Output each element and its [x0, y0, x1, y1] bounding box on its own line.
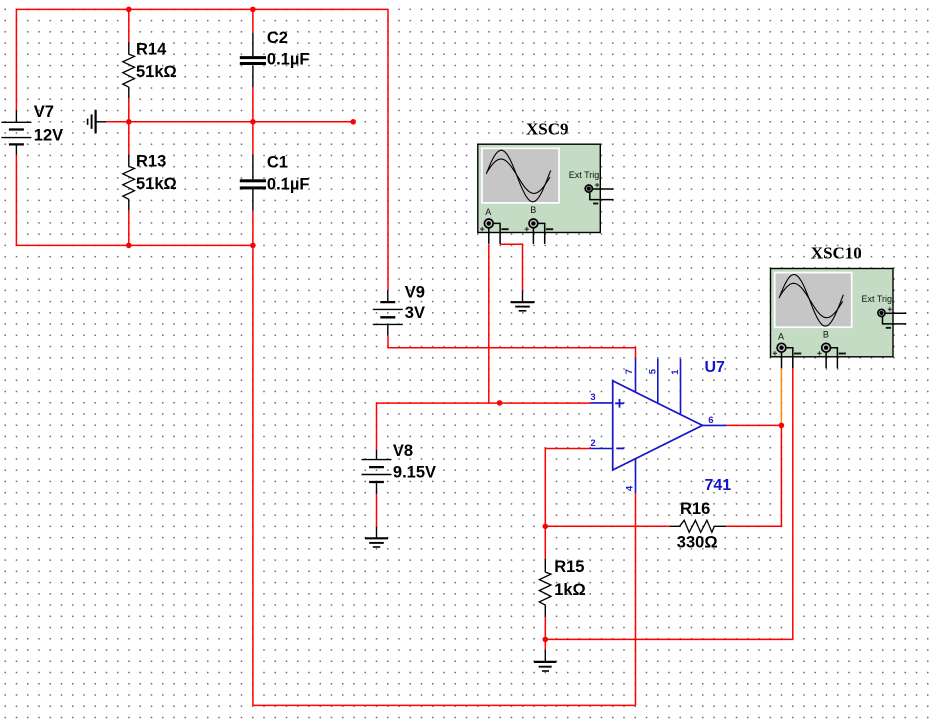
wire R13 top: [128, 122, 130, 155]
pin 1 offset null lead: [680, 359, 682, 414]
wire top rail: [16, 8, 388, 10]
svg-text:V8: V8: [393, 442, 413, 460]
junction bottom R13: [126, 243, 132, 249]
XSC10 channel B minus mark: [839, 353, 846, 355]
XSC10 screen: [775, 273, 852, 328]
resistor R14: [123, 40, 177, 98]
svg-text:9.15V: 9.15V: [393, 464, 436, 482]
wire V8 top: [376, 403, 378, 450]
wire output pin6: [726, 424, 782, 426]
wire V7 bottom to rail: [15, 155, 17, 246]
XSC10 trace B: [780, 283, 843, 317]
svg-text:5: 5: [647, 368, 658, 374]
wire bottom-left rail: [16, 244, 253, 246]
pin 5 offset null lead: [657, 359, 659, 403]
XSC9 channel A plus mark: [480, 227, 484, 231]
svg-text:XSC10: XSC10: [811, 244, 862, 263]
junction output node: [779, 423, 785, 429]
wire R16 left: [545, 525, 670, 527]
XSC10 channel B plus mark: [817, 351, 821, 355]
XSC9 channel B connector: [529, 219, 538, 228]
svg-text:3: 3: [590, 392, 595, 403]
svg-text:C1: C1: [267, 153, 288, 171]
junction top R14: [126, 7, 132, 13]
resistor R16: [670, 500, 726, 552]
XSC10 Ext Trig stub wires: [883, 313, 907, 324]
capacitor C1: [240, 153, 310, 210]
wire ground rail to XSC10 A minus: [545, 368, 793, 639]
XSC9 Ext Trig plus mark: [595, 183, 599, 187]
XSC9 channel A plus stub: [488, 228, 490, 244]
svg-text:12V: 12V: [34, 127, 63, 145]
junction mid C2: [250, 119, 256, 125]
wire long left drop: [252, 245, 254, 705]
XSC10 Ext Trig minus mark: [886, 327, 891, 329]
XSC9 body: [478, 144, 601, 232]
op-amp triangle body: [613, 381, 703, 470]
XSC9 channel B plus stub: [532, 228, 534, 244]
resistor R15: [539, 558, 585, 617]
wire middle rail from ground: [106, 121, 353, 123]
ground XSC9: [511, 291, 535, 311]
svg-text:Ext Trig: Ext Trig: [862, 294, 893, 304]
oscilloscope XSC10: [771, 244, 907, 369]
svg-text:A: A: [485, 207, 491, 217]
XSC10 Ext Trig connector: [878, 309, 885, 316]
junction top C2: [250, 7, 256, 13]
wire V9 to pin7: [388, 335, 636, 358]
XSC10 channel B plus stub: [825, 352, 827, 368]
XSC9 Ext Trig stub wires: [590, 189, 614, 200]
wire R15 to ground: [544, 639, 546, 649]
capacitor C2: [240, 29, 310, 87]
XSC9 channel A connector: [484, 219, 493, 228]
XSC9 channel B minus mark: [546, 228, 553, 230]
plus mark non-inverting: [615, 399, 624, 408]
svg-text:V9: V9: [405, 284, 425, 302]
pin 4 negative supply lead: [635, 458, 637, 493]
wire XSC9 A minus to ground: [500, 244, 522, 290]
XSC9 trace B: [487, 159, 550, 193]
op-amp U7: [590, 358, 731, 494]
svg-text:C2: C2: [267, 29, 288, 47]
wire XSC9 A plus drop: [488, 244, 490, 403]
svg-text:R13: R13: [136, 152, 166, 170]
XSC10 channel B minus stub: [826, 348, 837, 369]
junction R16 R15: [543, 524, 549, 530]
svg-text:4: 4: [624, 485, 635, 491]
svg-text:R16: R16: [680, 500, 710, 518]
wire R16 right up to output: [726, 425, 782, 526]
wire R15 bottom: [544, 617, 546, 640]
svg-text:1kΩ: 1kΩ: [554, 581, 586, 599]
junction pin3 node: [497, 400, 503, 406]
wire pin3 rail: [377, 402, 591, 404]
svg-text:330Ω: 330Ω: [677, 534, 718, 552]
svg-text:A: A: [778, 332, 784, 342]
wire left drop V7 top: [15, 9, 17, 111]
battery V9: [373, 284, 425, 335]
wire V8 bottom: [376, 494, 378, 527]
junction R15 ground: [543, 637, 549, 643]
XSC10 Ext Trig plus mark: [888, 307, 892, 311]
svg-text:0.1µF: 0.1µF: [267, 175, 310, 193]
svg-text:3V: 3V: [405, 304, 425, 322]
minus mark inverting: [616, 447, 624, 449]
oscilloscope XSC9: [478, 120, 614, 244]
svg-text:B: B: [530, 205, 536, 215]
wire C2 bottom: [252, 87, 254, 122]
svg-text:Ext Trig: Ext Trig: [569, 170, 600, 180]
XSC9 channel A minus mark: [501, 228, 508, 230]
wire C1 top: [252, 122, 254, 155]
pin 7 positive supply lead: [635, 358, 637, 392]
svg-text:741: 741: [705, 477, 732, 494]
wire pin2 feedback: [545, 449, 590, 527]
svg-text:51kΩ: 51kΩ: [136, 63, 177, 81]
XSC10 channel A connector: [777, 343, 786, 352]
svg-text:2: 2: [590, 438, 595, 449]
pin 6 output lead: [702, 424, 726, 426]
svg-text:U7: U7: [705, 359, 726, 376]
junction mid R14: [126, 119, 132, 125]
wire R13 bottom: [128, 210, 130, 245]
wire pin4 drop: [635, 493, 637, 706]
XSC10 trace A: [779, 275, 843, 327]
ground V8: [365, 527, 388, 547]
pin 2 inverting input lead: [591, 448, 613, 450]
XSC9 screen: [482, 148, 559, 203]
wire orange XSC10 A plus to output: [780, 368, 782, 425]
svg-text:XSC9: XSC9: [526, 120, 569, 139]
ground GND left (rotated): [88, 110, 106, 134]
battery V8: [362, 442, 437, 494]
junction mid rail end: [350, 119, 356, 125]
XSC10 channel A plus mark: [773, 351, 777, 355]
svg-text:7: 7: [624, 369, 635, 374]
XSC9 channel B minus stub: [533, 223, 544, 244]
svg-text:V7: V7: [34, 103, 54, 121]
XSC9 channel A minus stub: [489, 223, 500, 244]
XSC10 channel A plus stub: [781, 352, 783, 368]
resistor R13: [123, 152, 177, 210]
XSC10 channel A minus stub: [782, 348, 793, 369]
wire V9 top drop: [387, 9, 389, 290]
battery V7: [1, 103, 63, 155]
svg-text:B: B: [823, 330, 829, 340]
pin 3 non-inverting input lead: [591, 402, 613, 404]
junction bottom C1: [250, 243, 256, 249]
XSC9 Ext Trig minus mark: [593, 203, 598, 205]
wire bottom rail: [253, 704, 636, 706]
wire C2 top: [252, 9, 254, 32]
svg-text:51kΩ: 51kΩ: [136, 175, 177, 193]
svg-text:R15: R15: [554, 558, 584, 576]
wire R14 top: [128, 9, 130, 42]
wire R15 top: [544, 526, 546, 558]
ground R15: [534, 650, 556, 671]
svg-text:6: 6: [708, 415, 713, 426]
svg-text:0.1µF: 0.1µF: [267, 51, 310, 69]
wire C1 bottom: [252, 211, 254, 246]
svg-text:1: 1: [670, 369, 681, 375]
XSC9 Ext Trig connector: [585, 185, 592, 192]
XSC10 channel A minus mark: [794, 353, 801, 355]
XSC9 channel B plus mark: [525, 227, 529, 231]
XSC10 body: [771, 269, 894, 357]
svg-text:R14: R14: [136, 40, 167, 58]
XSC10 channel B connector: [822, 343, 831, 352]
wire R14 bottom: [128, 98, 130, 122]
XSC9 trace A: [486, 150, 550, 202]
